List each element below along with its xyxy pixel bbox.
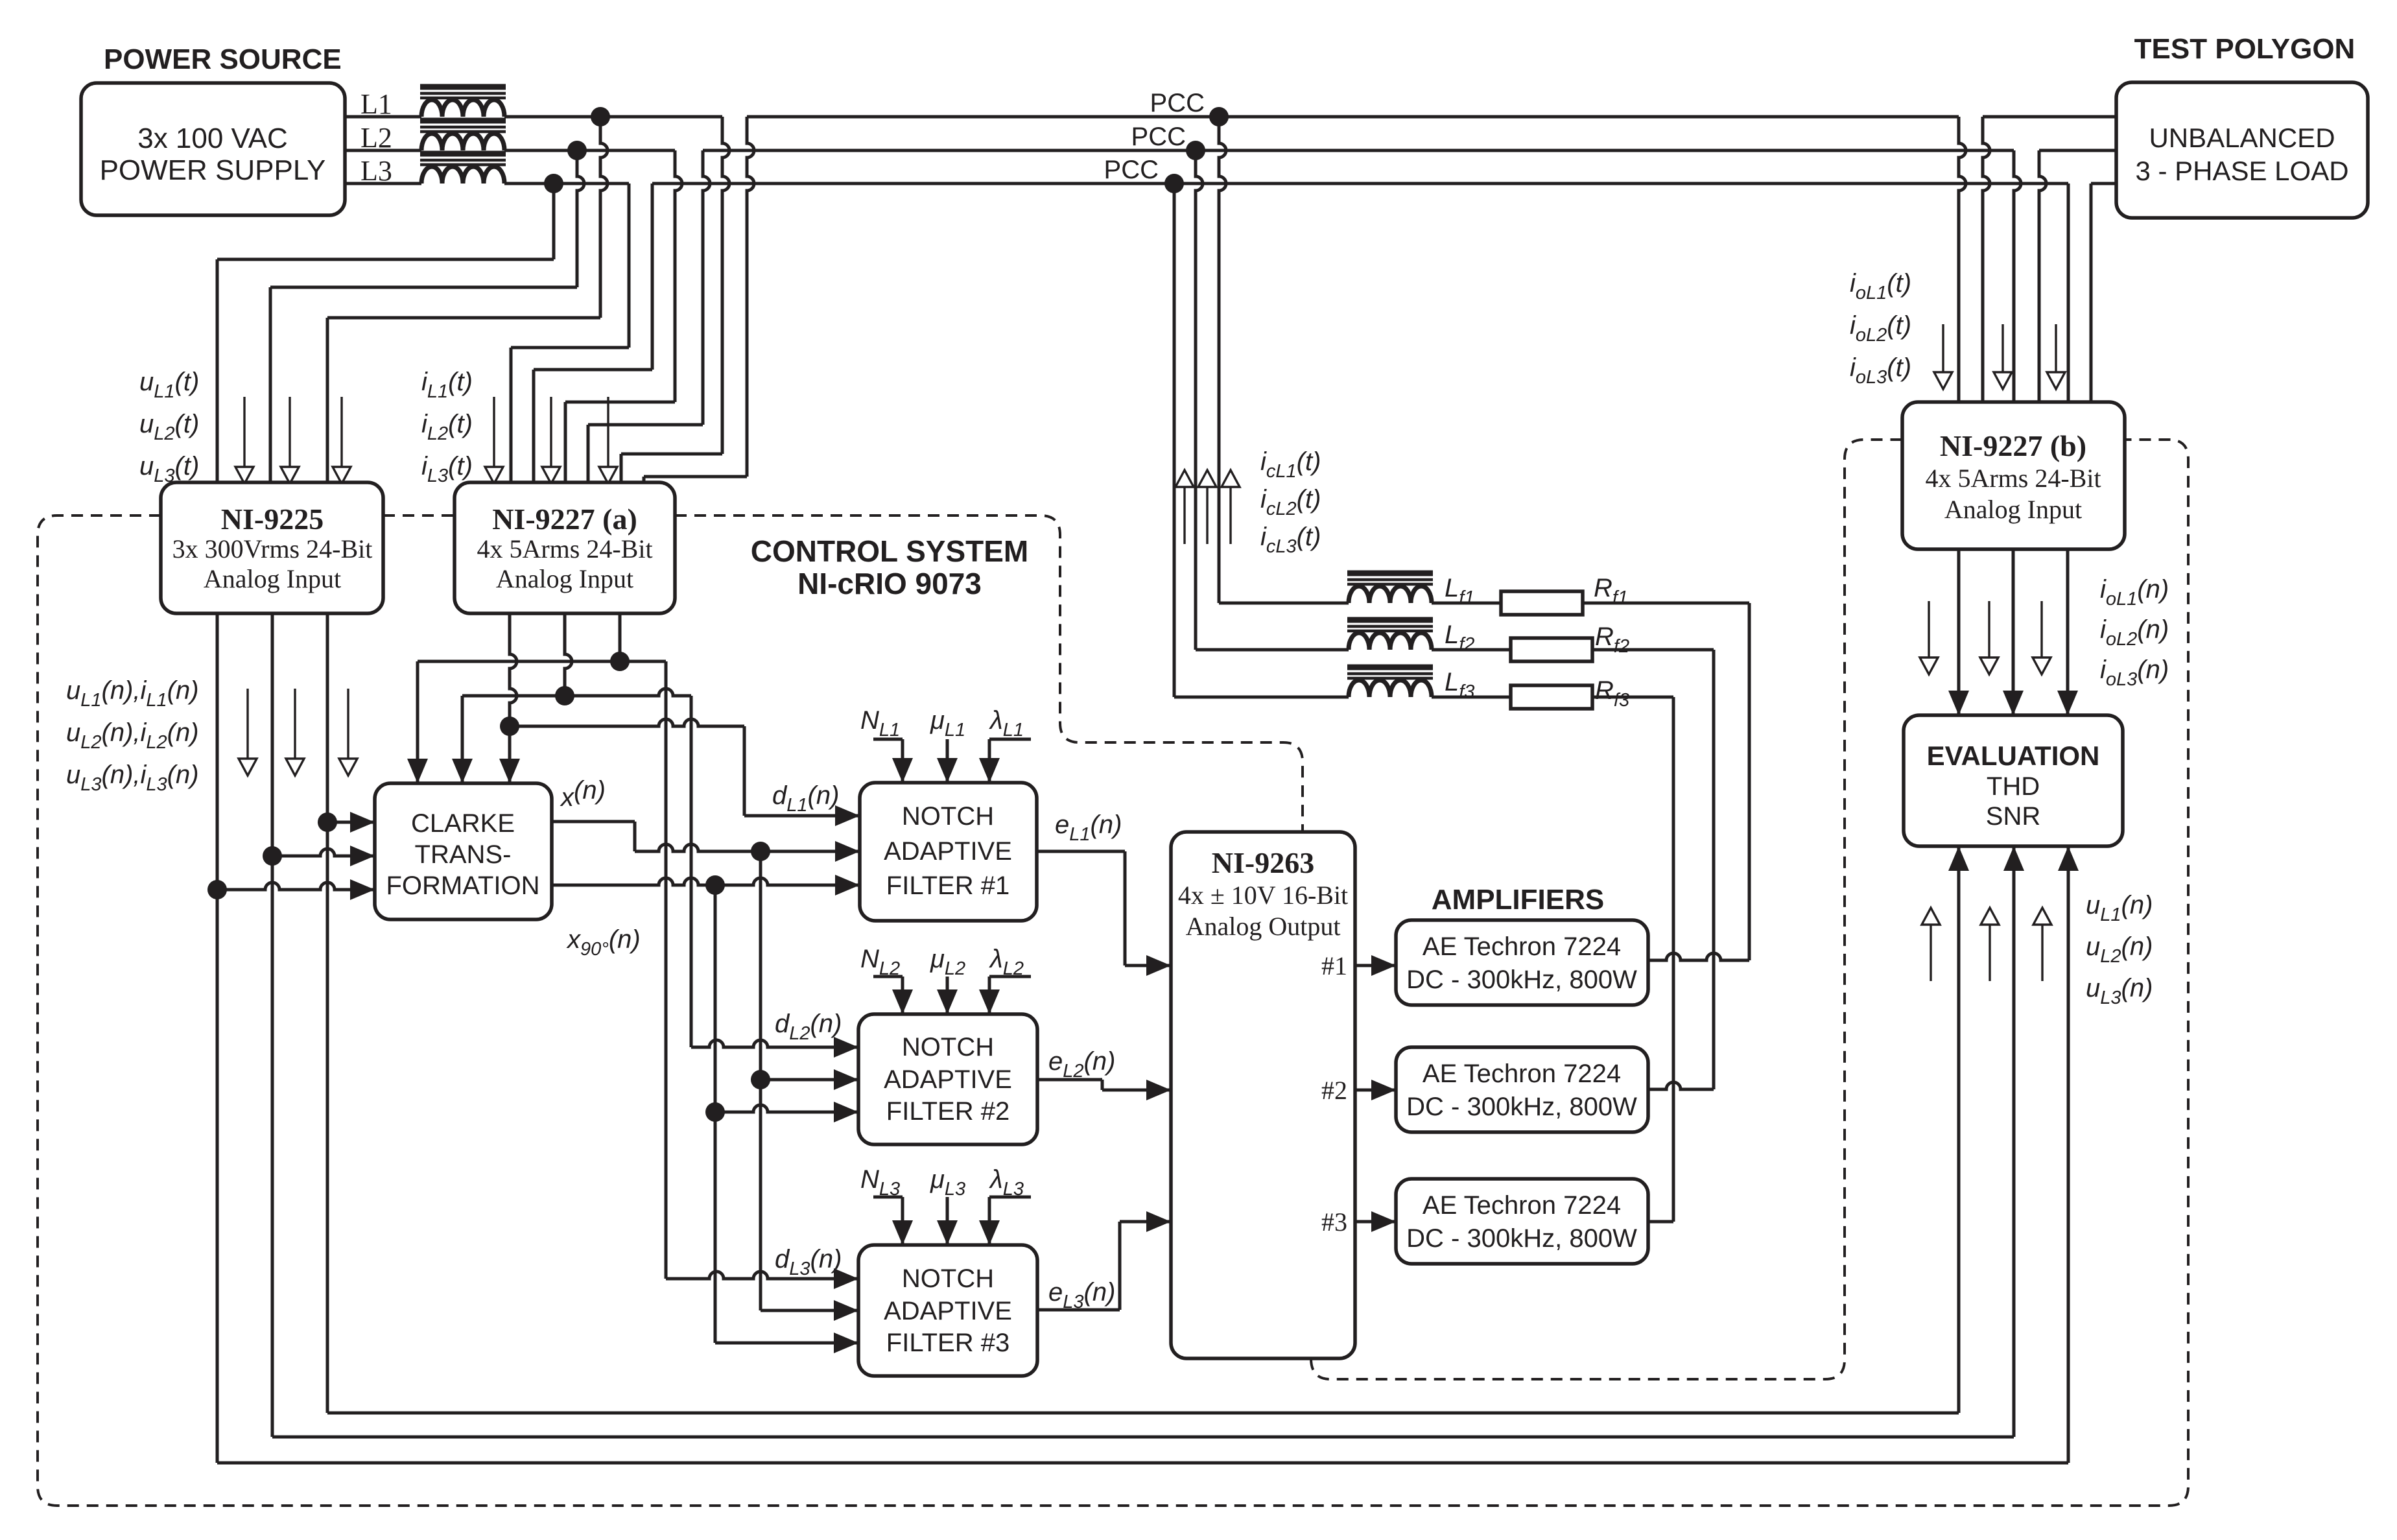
svg-text:Analog Input: Analog Input: [1944, 495, 2082, 524]
node x90 branch2: [705, 1102, 725, 1122]
svg-text:NI-cRIO 9073: NI-cRIO 9073: [797, 567, 982, 600]
wire PCC L2 to filter: [1196, 150, 1203, 650]
svg-text:PCC: PCC: [1150, 89, 1205, 117]
svg-text:NOTCH: NOTCH: [902, 1033, 994, 1061]
wire uL2(n) sample: [271, 613, 274, 1437]
inductor source L2: [421, 134, 504, 150]
svg-text:POWER SUPPLY: POWER SUPPLY: [100, 154, 326, 186]
wire iL2 return: [587, 425, 590, 482]
arrow clarke in3: [350, 879, 375, 900]
wire x90 into notch2: [715, 1105, 858, 1112]
arrow x into notch3: [834, 1300, 858, 1321]
wire Lf1 to Rf1: [1432, 602, 1501, 605]
wire L1 inductor to break: [504, 115, 722, 119]
arrow clarke in1: [350, 812, 375, 833]
wire iL3 down: [628, 184, 631, 348]
svg-text:AMPLIFIERS: AMPLIFIERS: [1432, 884, 1604, 916]
svg-text:4x 5Arms 24-Bit: 4x 5Arms 24-Bit: [477, 534, 652, 563]
svg-text:NI-9227 (a): NI-9227 (a): [492, 503, 637, 536]
arrow uL1 marker: [243, 397, 245, 467]
wire x90 column: [714, 885, 717, 1343]
arrow eL1 into NI-9263: [1146, 955, 1171, 976]
wire Rf1 out: [1583, 602, 1749, 605]
svg-text:ADAPTIVE: ADAPTIVE: [884, 837, 1012, 866]
load box: [2116, 82, 2368, 218]
wire clarke in1: [327, 821, 375, 824]
arrow iL2 marker: [550, 397, 552, 467]
node L3 voltage tap: [544, 174, 563, 193]
svg-text:3x 100 VAC: 3x 100 VAC: [137, 123, 288, 154]
wire x90(n): [552, 878, 860, 885]
wire muL1 param: [946, 739, 949, 783]
dashed boundary control system: [675, 515, 1303, 833]
svg-text:NI-9263: NI-9263: [1212, 846, 1314, 879]
arrow x90 into notch3: [834, 1333, 858, 1353]
wire eL3: [1037, 1309, 1120, 1312]
svg-text:POWER SOURCE: POWER SOURCE: [104, 43, 342, 75]
arrow ioL3 into eval: [2057, 691, 2078, 715]
wire x into notch2: [761, 1078, 858, 1082]
wire Lf3 to Rf3: [1432, 696, 1511, 699]
block evaluation: [1904, 715, 2123, 846]
inductor Lf2: [1349, 633, 1432, 650]
wire iL1 sample: [510, 613, 517, 726]
wire amp2 output: [1648, 1082, 1714, 1089]
wire uL3(n) sample: [216, 613, 219, 1463]
arrow uL1n into eval: [1948, 846, 1969, 871]
svg-text:Analog Input: Analog Input: [496, 564, 633, 593]
arrow sample2 marker: [294, 689, 296, 759]
wire L3 inductor to break: [504, 182, 629, 185]
arrow x90 into notch2: [834, 1102, 858, 1122]
node PCC L2: [1186, 141, 1205, 160]
arrow iL3 marker: [607, 397, 609, 467]
resistor Rf3: [1511, 685, 1592, 709]
wire NL1 param: [873, 738, 903, 741]
arrow icL3 marker: [1229, 487, 1231, 544]
svg-text:NI-9227 (b): NI-9227 (b): [1940, 429, 2086, 462]
wire lambdaL2 param: [989, 975, 1031, 978]
wire x column: [759, 851, 762, 1310]
dashed boundary evaluation: [1311, 440, 1902, 1379]
power supply box: [81, 83, 345, 215]
wire Rf2 out: [1592, 648, 1714, 652]
wire clarke in2: [272, 849, 375, 856]
svg-text:AE Techron 7224: AE Techron 7224: [1423, 1191, 1621, 1220]
arrow ioL2n marker: [1988, 601, 1990, 657]
arrow clarke in2: [350, 846, 375, 866]
arrow ioL1 into eval: [1948, 691, 1969, 715]
wire Lf2 to Rf2: [1432, 648, 1511, 652]
arrow dL3 into notch3: [834, 1268, 858, 1289]
block notch filter 1: [860, 783, 1037, 921]
block notch filter 3: [858, 1245, 1037, 1376]
arrow ioL1n marker: [1928, 601, 1930, 657]
svg-text:4x 5Arms 24-Bit: 4x 5Arms 24-Bit: [1925, 464, 2101, 493]
wire L1 from supply: [345, 115, 421, 119]
arrow ioL2 marker: [2001, 324, 2003, 372]
svg-text:TRANS-: TRANS-: [415, 840, 512, 869]
arrow iL1 marker: [493, 397, 495, 467]
wire dL1 row: [510, 719, 744, 726]
svg-text:NI-9225: NI-9225: [221, 503, 324, 536]
node dL1 branch: [500, 717, 519, 736]
svg-text:THD: THD: [1987, 772, 2040, 801]
arrow uL2n into eval: [2003, 846, 2024, 871]
svg-text:#3: #3: [1321, 1207, 1347, 1237]
node dL2 branch: [555, 686, 574, 705]
node x branch1: [751, 842, 770, 861]
module NI-9227b: [1902, 402, 2125, 549]
node uL2 branch: [263, 846, 282, 866]
arrow dL2 into notch2: [834, 1037, 858, 1058]
wire dL3 row2: [666, 1272, 858, 1279]
svg-text:NOTCH: NOTCH: [902, 802, 994, 831]
arrow clarke top 1: [407, 759, 428, 783]
wire L2 from supply: [345, 149, 421, 152]
wire x into notch3: [761, 1309, 858, 1312]
wire uL3 tap: [552, 184, 556, 259]
inductor source L1: [421, 100, 504, 117]
wire clarke in3: [217, 883, 375, 890]
arrow uL2 marker: [289, 397, 290, 467]
module NI-9227a: [455, 482, 675, 613]
wire lambdaL3 param: [989, 1196, 1031, 1199]
wire uL1 tap: [600, 117, 608, 318]
arrow x into notch1: [835, 841, 860, 862]
svg-text:PCC: PCC: [1104, 156, 1159, 184]
arrow uL3n into eval: [2058, 846, 2079, 871]
wire L2 bus: [703, 149, 2014, 152]
arrow icL1 marker: [1183, 487, 1185, 544]
svg-text:3x 300Vrms 24-Bit: 3x 300Vrms 24-Bit: [172, 534, 373, 563]
wire uL2 tap: [577, 150, 584, 287]
wire PCC L3 to filter: [1173, 184, 1176, 697]
wire L2 return to load: [2039, 150, 2046, 402]
node x90 branch1: [705, 875, 725, 895]
wire iL1 down: [722, 117, 729, 454]
svg-text:FILTER #3: FILTER #3: [886, 1329, 1010, 1357]
wire L2 to NI-9227b: [2014, 150, 2021, 402]
arrow eL2 into NI-9263: [1146, 1080, 1171, 1100]
svg-text:Analog Output: Analog Output: [1186, 912, 1341, 941]
svg-text:EVALUATION: EVALUATION: [1927, 740, 2100, 771]
svg-text:DC - 300kHz, 800W: DC - 300kHz, 800W: [1406, 1224, 1637, 1253]
block amplifier 2: [1396, 1047, 1648, 1132]
inductor source L3: [421, 167, 504, 184]
wire eL1: [1037, 850, 1125, 853]
inductor Lf1: [1349, 586, 1432, 603]
svg-text:DC - 300kHz, 800W: DC - 300kHz, 800W: [1406, 1093, 1637, 1121]
wire PCC L1 to filter: [1219, 117, 1226, 603]
module NI-9225: [161, 482, 383, 613]
wire x(n): [552, 820, 635, 823]
svg-text:PCC: PCC: [1131, 123, 1186, 151]
wire L1 bus: [747, 115, 1959, 119]
arrow uL3 marker: [340, 397, 342, 467]
arrow ioL3n marker: [2040, 601, 2042, 657]
arrow clarke top 2: [452, 759, 473, 783]
arrow dL1 into notch1: [835, 805, 860, 826]
block notch filter 2: [858, 1014, 1037, 1144]
svg-text:NOTCH: NOTCH: [902, 1264, 994, 1293]
arrow x into notch2: [834, 1069, 858, 1090]
arrow into amp1: [1371, 955, 1396, 976]
svg-text:FILTER #2: FILTER #2: [886, 1097, 1010, 1126]
wire ioL3(n): [2066, 549, 2070, 715]
arrow sample3 marker: [347, 689, 349, 759]
arrow icL2 marker: [1206, 487, 1208, 544]
svg-text:#1: #1: [1321, 951, 1347, 980]
wire x90 into notch3: [715, 1342, 858, 1345]
svg-text:3 - PHASE LOAD: 3 - PHASE LOAD: [2135, 156, 2348, 186]
node uL1 branch: [318, 812, 337, 832]
arrow uL2n marker: [1989, 925, 1990, 981]
svg-text:4x ± 10V 16-Bit: 4x ± 10V 16-Bit: [1178, 881, 1348, 910]
wire iL3 sample: [619, 613, 622, 661]
svg-text:FILTER #1: FILTER #1: [886, 871, 1010, 900]
wire amp3 output: [1648, 1220, 1673, 1224]
node PCC L3: [1164, 174, 1184, 193]
svg-text:TEST POLYGON: TEST POLYGON: [2134, 33, 2356, 65]
wire muL3 param: [946, 1197, 949, 1245]
block amplifier 3: [1396, 1179, 1648, 1264]
arrow ioL3 marker: [2055, 324, 2057, 372]
svg-text:Analog Input: Analog Input: [204, 564, 341, 593]
wire dL2 row2: [691, 1040, 858, 1047]
svg-text:ADAPTIVE: ADAPTIVE: [884, 1297, 1012, 1325]
wire eL2: [1037, 1078, 1102, 1082]
wire L3 return to load: [2090, 184, 2093, 402]
arrow into amp3: [1371, 1211, 1396, 1232]
svg-text:AE Techron 7224: AE Techron 7224: [1423, 932, 1621, 961]
node x branch2: [751, 1070, 770, 1089]
wire L2 inductor to break: [504, 149, 675, 152]
wire clarke top feed 3: [508, 726, 512, 783]
node L2 voltage tap: [567, 141, 587, 160]
wire amp1 output: [1648, 953, 1749, 960]
wire L3 to NI-9227b: [2067, 184, 2070, 402]
svg-text:CONTROL SYSTEM: CONTROL SYSTEM: [751, 534, 1029, 568]
wire iL1 return: [643, 477, 646, 482]
wire NL2 param: [873, 975, 903, 978]
wire Rf3 out: [1592, 696, 1673, 699]
wire lambdaL1 param: [989, 738, 1031, 741]
wire NL3 param: [873, 1196, 903, 1199]
svg-text:DC - 300kHz, 800W: DC - 300kHz, 800W: [1406, 965, 1637, 994]
wire iL2 down: [675, 150, 682, 402]
wire ch1 to amp1: [1355, 964, 1396, 967]
wire iL2 sample: [565, 613, 572, 696]
arrow x90 into notch1: [835, 875, 860, 895]
arrow ioL1 marker: [1942, 324, 1944, 372]
wire L1 return to load: [1983, 117, 1990, 402]
svg-text:AE Techron 7224: AE Techron 7224: [1423, 1060, 1621, 1088]
arrow into amp2: [1371, 1080, 1396, 1100]
wire L1 to NI-9227b: [1959, 117, 1966, 402]
wire dL2 row: [565, 689, 691, 696]
svg-text:#2: #2: [1321, 1076, 1347, 1105]
wire clarke top feed 2: [462, 694, 565, 698]
dashed link NI-9225 to NI-9227a: [383, 514, 455, 517]
wire ioL2(n): [2012, 549, 2015, 715]
node uL3 branch: [207, 880, 227, 899]
module NI-9263: [1171, 832, 1355, 1358]
svg-text:CLARKE: CLARKE: [411, 809, 515, 838]
resistor Rf1: [1501, 591, 1583, 615]
wire clarke top feed 1: [418, 660, 620, 663]
wire L3 from supply: [345, 182, 421, 185]
arrow sample1 marker: [246, 689, 248, 759]
arrow uL3n marker: [2041, 925, 2043, 981]
wire uL1(n) sample: [326, 613, 329, 1413]
wire muL2 param: [946, 977, 949, 1014]
wire ch3 to amp3: [1355, 1220, 1396, 1224]
svg-text:FORMATION: FORMATION: [386, 871, 539, 900]
block amplifier 1: [1396, 920, 1648, 1005]
arrow clarke top 3: [499, 759, 520, 783]
wire ch2 to amp2: [1355, 1089, 1396, 1092]
inductor Lf3: [1349, 680, 1432, 697]
node PCC L1: [1209, 107, 1229, 126]
arrow uL1n marker: [1930, 925, 1931, 981]
wire ioL1(n): [1957, 549, 1961, 715]
wire dL3 row: [620, 660, 666, 663]
dashed boundary outer: [38, 440, 2188, 1506]
wire L3 bus: [652, 182, 2068, 185]
node dL3 branch: [610, 652, 630, 671]
svg-text:ADAPTIVE: ADAPTIVE: [884, 1065, 1012, 1094]
arrow ioL2 into eval: [2003, 691, 2024, 715]
node L1 voltage tap: [591, 107, 610, 126]
wire iL3 return: [532, 370, 536, 482]
block clarke transformation: [375, 783, 552, 919]
svg-text:SNR: SNR: [1986, 802, 2040, 831]
arrow eL3 into NI-9263: [1146, 1211, 1171, 1232]
svg-text:UNBALANCED: UNBALANCED: [2149, 123, 2335, 153]
resistor Rf2: [1511, 638, 1592, 661]
